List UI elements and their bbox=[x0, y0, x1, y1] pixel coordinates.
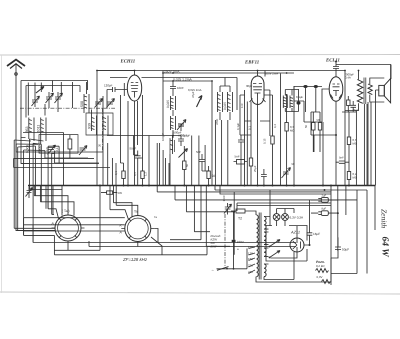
svg-text:10nF: 10nF bbox=[177, 86, 184, 90]
power transformer primary bbox=[257, 215, 259, 277]
svg-text:64 W: 64 W bbox=[380, 237, 390, 258]
svg-text:5000: 5000 bbox=[38, 145, 42, 153]
dial lamp 1 bbox=[273, 214, 280, 221]
speaker bbox=[379, 79, 391, 103]
wire: center horizontals bbox=[107, 136, 181, 164]
extra wires EBF area bbox=[240, 95, 270, 135]
wire: left rail top steps bbox=[14, 133, 102, 164]
wire: AZ11 hookups bbox=[271, 209, 310, 259]
svg-text:50: 50 bbox=[212, 174, 216, 178]
wire: right rails below bus bbox=[331, 186, 375, 286]
antenna bbox=[7, 60, 25, 76]
svg-text:200V 2mA: 200V 2mA bbox=[265, 71, 278, 75]
power transformer core bbox=[259, 213, 261, 280]
svg-text:0,4A: 0,4A bbox=[345, 76, 351, 80]
coil 1011 bbox=[37, 118, 46, 135]
trimmer EBF bbox=[282, 168, 291, 179]
wire: grid feeds bbox=[97, 82, 116, 186]
fuse T2 bbox=[231, 209, 250, 221]
wire: antenna lead down to gang bbox=[16, 64, 55, 231]
svg-text:50: 50 bbox=[292, 162, 296, 166]
resistor 50 bbox=[207, 166, 215, 186]
electrolytic block 2 bbox=[311, 208, 338, 216]
svg-text:25W: 25W bbox=[210, 245, 217, 249]
main chassis bus bbox=[28, 185, 375, 187]
capacitor EBF grid bbox=[238, 135, 244, 186]
resistor volume 1 bbox=[122, 163, 125, 186]
selector switch arrows bbox=[269, 240, 280, 259]
svg-text:8µF: 8µF bbox=[322, 208, 327, 211]
resistor ECL cathode bbox=[347, 96, 350, 112]
svg-text:1nF: 1nF bbox=[240, 103, 244, 108]
svg-text:50: 50 bbox=[304, 124, 308, 128]
wire: 50uF leads bbox=[331, 238, 338, 258]
note Pozn bbox=[316, 260, 329, 273]
capacitor 5nF boxed bbox=[234, 155, 248, 165]
svg-text:30: 30 bbox=[98, 143, 102, 147]
wire: misc feeds bbox=[265, 71, 304, 123]
svg-text:ECH11: ECH11 bbox=[120, 59, 136, 65]
wire: screen line bbox=[110, 71, 237, 186]
capacitor ECL11 top bbox=[333, 63, 339, 72]
svg-text:25µF: 25µF bbox=[353, 108, 360, 112]
resistor ECL cath bbox=[347, 167, 350, 186]
resistor volume 2 bbox=[141, 158, 144, 186]
svg-text:30pF: 30pF bbox=[246, 84, 253, 88]
wire: output transformer leads bbox=[345, 71, 384, 186]
box lower left bbox=[39, 135, 78, 154]
power transformer HT winding bbox=[264, 217, 266, 277]
wire: IF1 leads bbox=[173, 93, 181, 136]
wire: top-left box frame bbox=[21, 81, 88, 164]
svg-text:939: 939 bbox=[88, 123, 92, 129]
svg-text:50nF: 50nF bbox=[130, 147, 137, 151]
svg-text:508: 508 bbox=[80, 101, 84, 107]
svg-text:1011: 1011 bbox=[37, 125, 41, 133]
dash-dot band switch link bbox=[20, 107, 115, 109]
capacitor 50uF bbox=[335, 243, 349, 255]
svg-text:220V: 220V bbox=[237, 240, 244, 244]
wire: second screen line bbox=[163, 80, 212, 82]
trimmer capacitor ant 2 bbox=[46, 92, 54, 104]
svg-text:MΩ: MΩ bbox=[353, 175, 357, 179]
wire: gang2 top hookups bbox=[24, 203, 138, 231]
trimmer capacitor osc 2 bbox=[107, 99, 115, 108]
svg-text:2µF: 2µF bbox=[322, 195, 327, 198]
trimmer lower left 2 bbox=[79, 146, 87, 156]
trimmer lower left 1 bbox=[48, 145, 56, 155]
dash-dot switch link bbox=[224, 214, 226, 267]
tube ECH11 bbox=[127, 71, 141, 186]
svg-text:AZ11: AZ11 bbox=[290, 230, 300, 235]
svg-text:0,3: 0,3 bbox=[273, 124, 277, 128]
heater resistor zigzag bbox=[322, 280, 331, 284]
switch mains bbox=[212, 249, 248, 273]
svg-text:0,15: 0,15 bbox=[263, 138, 267, 144]
resistor div 1 bbox=[312, 112, 315, 152]
box around osc coils bbox=[86, 113, 113, 135]
resistor EBF screen bbox=[271, 136, 274, 186]
coil osc 508 bbox=[80, 94, 89, 110]
IF transformer 3 secondary bbox=[290, 96, 294, 109]
capacitor 5nF mid bbox=[196, 150, 205, 167]
svg-text:0,1µF: 0,1µF bbox=[296, 95, 303, 99]
svg-text:0,1: 0,1 bbox=[55, 147, 59, 152]
wire: coil bottoms to lower steps bbox=[29, 110, 108, 145]
capacitor cluster labels bbox=[172, 131, 190, 138]
wire: left rails nest bbox=[14, 133, 63, 243]
label Zenith 64 W bbox=[380, 209, 390, 257]
wire: EBF extras2 bbox=[251, 77, 255, 152]
dash-dot band switch vertical bbox=[102, 108, 104, 152]
svg-text:0,1µF: 0,1µF bbox=[236, 123, 240, 130]
wire: plate supply line bbox=[163, 72, 294, 74]
wire: 16uF feed bbox=[309, 200, 311, 227]
svg-text:50: 50 bbox=[317, 118, 321, 122]
tuning arrow mid bbox=[197, 96, 203, 108]
trimmer IF1 bbox=[177, 120, 186, 131]
svg-text:125: 125 bbox=[248, 251, 253, 255]
electrolytic 16uF bbox=[307, 227, 321, 245]
svg-text:Ta: Ta bbox=[154, 215, 157, 219]
resistor EBF plate bbox=[285, 95, 288, 186]
variable capacitor mid low bbox=[224, 203, 232, 215]
svg-text:0,1: 0,1 bbox=[114, 171, 118, 175]
wire: lower-left long horizontals bbox=[14, 158, 110, 167]
coil 863 bbox=[25, 118, 34, 135]
wire: top B+ bus bbox=[97, 70, 345, 72]
wire: line to speaker top bbox=[336, 65, 391, 80]
svg-text:Zenith: Zenith bbox=[380, 209, 389, 228]
trimmer padder bbox=[179, 149, 188, 158]
svg-text:5nF: 5nF bbox=[339, 156, 344, 160]
capacitor under IF1 bbox=[178, 135, 184, 147]
wire: ECH11 top cap bbox=[97, 71, 135, 83]
svg-text:5nF: 5nF bbox=[235, 155, 240, 159]
svg-text:6,3V 0,3A: 6,3V 0,3A bbox=[290, 215, 305, 219]
trimmer below bus left bbox=[26, 187, 33, 199]
transformer taps bbox=[248, 245, 255, 274]
svg-text:8,2 kΩ: 8,2 kΩ bbox=[316, 264, 325, 268]
label mid low block bbox=[210, 234, 221, 249]
svg-text:863: 863 bbox=[25, 127, 29, 133]
wire: gang1 below-bus rails bbox=[34, 186, 62, 215]
svg-text:50µF: 50µF bbox=[342, 247, 349, 251]
IF transformer 2 secondary bbox=[223, 92, 233, 112]
mains connector blob bbox=[232, 212, 244, 269]
wire: EBF11 leads bbox=[245, 71, 273, 186]
tube EBF11 bbox=[250, 76, 266, 105]
tube ECL11 bbox=[329, 72, 343, 101]
svg-text:MΩ: MΩ bbox=[290, 128, 294, 132]
svg-text:4700pF: 4700pF bbox=[178, 134, 188, 138]
svg-text:10nF: 10nF bbox=[222, 195, 226, 202]
svg-text:5W: 5W bbox=[118, 191, 123, 195]
wire: box internals verticals bbox=[28, 81, 91, 116]
svg-text:110: 110 bbox=[248, 245, 253, 249]
wire: below gang horizontals bbox=[24, 229, 296, 255]
output transformer primary bbox=[357, 78, 366, 105]
wire: right mid verticals bbox=[281, 74, 368, 186]
svg-text:0,025: 0,025 bbox=[166, 100, 170, 108]
scan edge left bbox=[1, 55, 3, 293]
svg-text:150: 150 bbox=[248, 257, 253, 261]
scan edge top bbox=[0, 54, 400, 57]
capacitor ECL coupling bbox=[336, 161, 350, 163]
capacitor 120pF grid bbox=[104, 84, 127, 93]
svg-text:100pF: 100pF bbox=[161, 133, 165, 141]
IF transformer 1 secondary bbox=[171, 116, 176, 130]
dial lamp 2 bbox=[282, 214, 289, 221]
svg-text:ECL11: ECL11 bbox=[325, 57, 340, 63]
junction blob 2 bbox=[314, 85, 318, 88]
svg-text:0,025: 0,025 bbox=[223, 102, 227, 110]
wire: IF3 hookup bbox=[285, 87, 322, 113]
output transformer secondary bbox=[368, 84, 372, 95]
svg-text:220: 220 bbox=[248, 263, 253, 267]
arrow tuning left bbox=[36, 87, 44, 94]
trimmer capacitor ant 3 bbox=[55, 92, 63, 104]
wire: heater net bbox=[294, 252, 367, 282]
coil padder bbox=[170, 138, 175, 154]
svg-text:Ta: Ta bbox=[134, 210, 138, 214]
svg-text:0,5: 0,5 bbox=[133, 172, 137, 176]
variable capacitor gang 2 bbox=[121, 210, 154, 246]
coil osc 939 bbox=[88, 116, 97, 132]
tiny value labels scatter bbox=[98, 71, 357, 251]
wire: below bus right nets bbox=[157, 186, 367, 255]
svg-text:T2: T2 bbox=[238, 217, 242, 221]
wire: center verticals bbox=[121, 136, 173, 186]
svg-text:5nF: 5nF bbox=[196, 150, 201, 154]
wire: gang1 top hookups bbox=[30, 190, 75, 219]
wire: transformer hookup bbox=[250, 190, 331, 282]
wire: gang2 below-bus rails bbox=[24, 186, 117, 251]
electrolytic block 1 bbox=[311, 195, 338, 203]
power box bbox=[266, 226, 307, 262]
trimmer capacitor osc 1 bbox=[95, 99, 103, 108]
svg-text:1,2: 1,2 bbox=[144, 172, 148, 176]
capacitor 50nF bbox=[130, 147, 141, 164]
trimmer capacitor ant 1 bbox=[32, 95, 40, 107]
junction blob 1 bbox=[303, 85, 307, 88]
resistor 5W below bus bbox=[101, 191, 122, 195]
svg-text:25µF: 25µF bbox=[253, 165, 257, 172]
IF transformer 2 primary bbox=[218, 92, 223, 112]
wire: IF2 leads bbox=[220, 78, 230, 121]
variable capacitor gang 1 bbox=[52, 209, 85, 245]
svg-text:120pF: 120pF bbox=[104, 84, 113, 88]
labels K A bbox=[51, 222, 123, 235]
capacitor 25uF ECL bbox=[351, 101, 360, 112]
wire: mid gap verticals bbox=[202, 120, 228, 186]
resistor left small 1 bbox=[68, 135, 72, 158]
svg-text:47µF: 47µF bbox=[191, 91, 195, 98]
svg-text:0,003: 0,003 bbox=[26, 145, 30, 153]
IF transformer 3 primary bbox=[283, 96, 287, 109]
scan edge bottom bbox=[0, 292, 400, 294]
svg-text:MΩ: MΩ bbox=[353, 141, 357, 145]
wire: under tube verticals bbox=[121, 83, 143, 158]
resistor EBF bottom bbox=[249, 151, 252, 186]
svg-text:50: 50 bbox=[185, 163, 189, 167]
svg-text:0,025 2mA: 0,025 2mA bbox=[188, 88, 202, 92]
svg-text:245: 245 bbox=[248, 270, 253, 274]
capacitor filled IF3 bbox=[297, 89, 301, 112]
coil osc b bbox=[103, 116, 108, 132]
svg-text:EBF11: EBF11 bbox=[244, 60, 259, 66]
capacitor 10nF bbox=[170, 81, 184, 93]
wire: ECL11 leads bbox=[322, 62, 345, 186]
svg-text:ZF=128 kHz: ZF=128 kHz bbox=[122, 257, 148, 262]
rectifier tube AZ11 bbox=[290, 238, 304, 252]
svg-text:6,3V: 6,3V bbox=[317, 275, 323, 279]
resistor under padder bbox=[183, 146, 186, 186]
svg-text:4700: 4700 bbox=[215, 118, 219, 125]
wire: gang1 left entries bbox=[14, 228, 55, 230]
resistor div 2 bbox=[318, 112, 321, 152]
IF transformer 1 primary bbox=[166, 96, 176, 110]
capacitor EBF cath bbox=[261, 169, 267, 186]
wire: right mid horizontals bbox=[237, 78, 356, 167]
resistor ECL grid bbox=[347, 112, 350, 158]
svg-text:16µF: 16µF bbox=[313, 232, 320, 236]
wire: speaker leads bbox=[371, 65, 391, 186]
wire: padder verticals bbox=[170, 136, 199, 186]
